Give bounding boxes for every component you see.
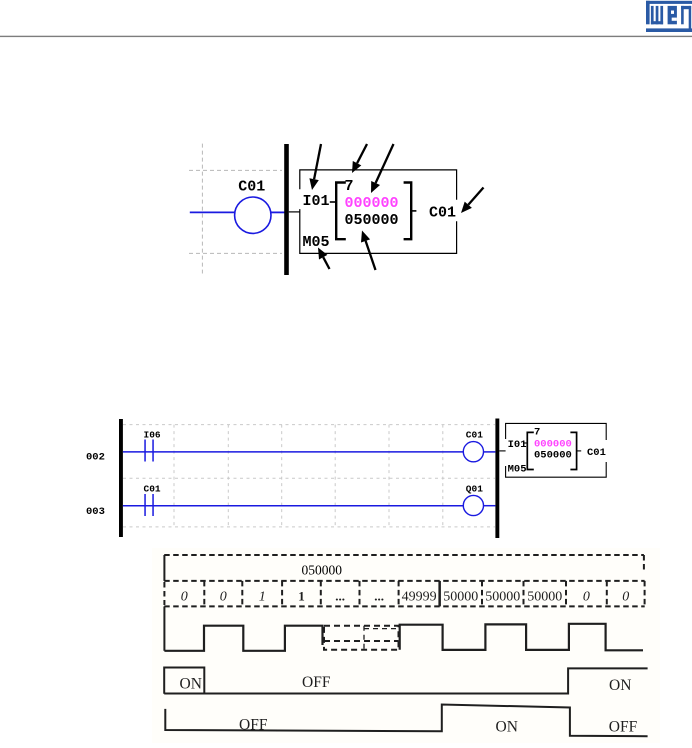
svg-text:002: 002 bbox=[86, 451, 105, 463]
svg-text:Q01: Q01 bbox=[466, 484, 483, 495]
svg-text:M05: M05 bbox=[508, 464, 527, 476]
svg-text:000000: 000000 bbox=[534, 438, 572, 450]
svg-text:0: 0 bbox=[583, 590, 590, 605]
svg-text:C01: C01 bbox=[238, 179, 265, 196]
svg-text:C01: C01 bbox=[144, 484, 161, 495]
svg-text:000000: 000000 bbox=[345, 195, 399, 212]
svg-text:ON: ON bbox=[180, 676, 202, 693]
svg-text:50000: 50000 bbox=[527, 590, 562, 605]
svg-text:ON: ON bbox=[496, 719, 518, 736]
svg-text:I06: I06 bbox=[144, 430, 161, 441]
svg-text:050000: 050000 bbox=[534, 450, 572, 462]
svg-text:0: 0 bbox=[622, 590, 629, 605]
svg-text:...: ... bbox=[335, 589, 345, 604]
svg-text:0: 0 bbox=[181, 590, 188, 605]
svg-text:C01: C01 bbox=[587, 447, 606, 459]
svg-text:7: 7 bbox=[534, 426, 540, 438]
svg-text:1: 1 bbox=[298, 589, 305, 604]
svg-text:OFF: OFF bbox=[609, 719, 638, 736]
svg-text:M05: M05 bbox=[303, 234, 330, 251]
svg-text:50000: 50000 bbox=[485, 590, 520, 605]
svg-text:003: 003 bbox=[86, 506, 105, 518]
svg-text:C01: C01 bbox=[429, 205, 456, 222]
svg-text:1: 1 bbox=[259, 590, 266, 605]
svg-text:050000: 050000 bbox=[302, 562, 343, 577]
svg-text:050000: 050000 bbox=[345, 212, 399, 229]
svg-text:I01: I01 bbox=[508, 439, 527, 451]
svg-text:ON: ON bbox=[609, 677, 631, 694]
svg-text:I01: I01 bbox=[303, 193, 330, 210]
svg-text:C01: C01 bbox=[466, 430, 483, 441]
svg-text:49999: 49999 bbox=[402, 590, 437, 605]
svg-text:...: ... bbox=[374, 589, 384, 604]
svg-text:OFF: OFF bbox=[302, 674, 331, 691]
svg-text:7: 7 bbox=[345, 178, 354, 195]
svg-text:50000: 50000 bbox=[443, 590, 478, 605]
svg-text:0: 0 bbox=[220, 590, 227, 605]
svg-text:OFF: OFF bbox=[239, 717, 268, 734]
